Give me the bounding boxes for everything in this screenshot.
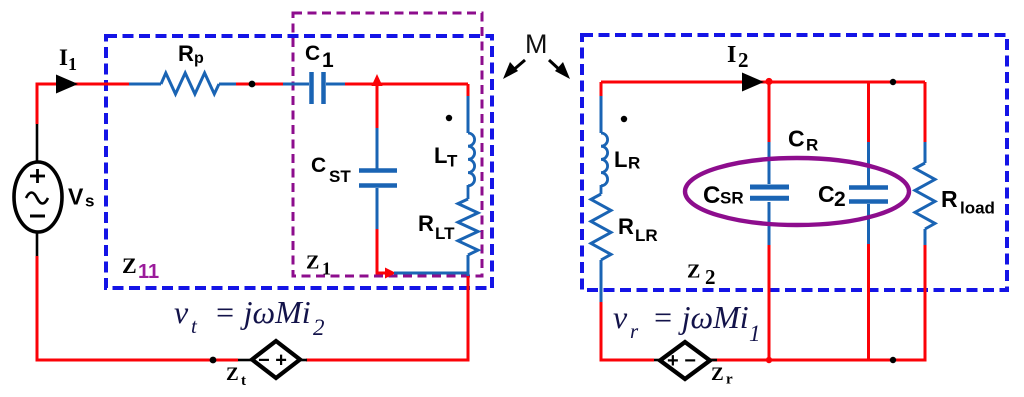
svg-text:C: C (703, 182, 720, 209)
wire C2 branch red bottom (867, 244, 870, 360)
wire between LR and RLR (600, 185, 603, 194)
junction dot red at I2 node (765, 78, 772, 85)
current arrow I2 (742, 73, 764, 92)
wire LR branch blue top lead (600, 96, 603, 133)
label Rp (178, 41, 204, 67)
svg-text:2: 2 (705, 265, 716, 289)
current arrow I1 (56, 75, 78, 94)
box Z2 (blue dashed, receiver impedance) (582, 35, 1007, 290)
label CR (788, 126, 818, 155)
svg-text:Z: Z (306, 252, 319, 274)
svg-text:Z: Z (226, 364, 239, 385)
label I2 (727, 42, 749, 72)
wire CST branch vertical red bottom (377, 229, 387, 273)
svg-text:r: r (630, 319, 639, 343)
coupling dot left coil (446, 115, 452, 121)
wire CSR branch red top (768, 82, 771, 143)
svg-text:I: I (59, 45, 68, 70)
wire LR branch red top (600, 82, 603, 97)
wire CST branch vertical blue bottom lead (376, 188, 379, 229)
svg-text:Z: Z (687, 261, 700, 283)
wire right branch bottom blue lead (467, 255, 470, 276)
box Z11 (blue dashed, transmitter impedance) (106, 36, 492, 288)
svg-text:LR: LR (635, 226, 658, 245)
label C1 (305, 42, 334, 72)
svg-text:Z: Z (711, 364, 724, 385)
wire top rail left circuit (red) (37, 84, 468, 124)
svg-text:2: 2 (313, 315, 325, 340)
svg-text:v: v (174, 294, 189, 330)
svg-text:R: R (178, 41, 194, 66)
svg-text:= jωMi: = jωMi (644, 299, 749, 335)
label C2 (818, 181, 846, 211)
svg-text:= jωMi: = jωMi (206, 294, 311, 330)
svg-text:V: V (68, 184, 84, 210)
wire Rload branch red bottom to rail (710, 245, 925, 360)
wire CSR branch blue bottom lead (768, 202, 771, 246)
svg-text:2: 2 (834, 188, 846, 211)
capacitor C1 (283, 72, 345, 104)
wire between LT and RLT (467, 185, 470, 199)
label Zr (711, 364, 733, 388)
capacitor CST (359, 171, 397, 186)
svg-text:R: R (628, 154, 640, 173)
svg-text:2: 2 (738, 48, 749, 72)
label Vs (68, 184, 94, 211)
label Z11 (122, 253, 159, 283)
coupling dot right coil (621, 116, 627, 122)
svg-text:SR: SR (720, 189, 744, 208)
label RLR (618, 214, 658, 245)
wire Rload branch red top (924, 82, 927, 143)
wire bottom rail right of diamond (red) (306, 359, 470, 362)
svg-text:M: M (525, 29, 548, 59)
svg-text:v: v (613, 299, 628, 335)
wire LR branch red bottom to rail (601, 302, 654, 360)
svg-text:LT: LT (435, 224, 455, 243)
svg-text:T: T (447, 152, 458, 171)
purple ellipse around CSR and C2 (685, 158, 909, 225)
dependent source Zt (diamond) (238, 341, 307, 378)
svg-text:C: C (788, 126, 805, 152)
junction dot after Rp (249, 81, 256, 88)
formula vr = jwMi1 (613, 299, 761, 346)
wire C2 branch red top (867, 82, 870, 143)
wire CST branch vertical red top (376, 84, 379, 128)
wire CSR branch blue top lead (768, 142, 771, 184)
wire Rload branch blue bottom lead (924, 229, 927, 246)
svg-text:1: 1 (322, 49, 334, 72)
resistor Rp (129, 73, 236, 94)
formula vt = jwMi2 (174, 294, 325, 340)
svg-text:1: 1 (749, 321, 761, 346)
inductor LT (468, 133, 475, 186)
svg-text:ST: ST (329, 167, 351, 186)
label Rload (941, 186, 995, 218)
mutual arrow right (549, 60, 570, 79)
voltage source Vs (14, 162, 62, 232)
svg-text:− +: − + (258, 350, 287, 372)
junction dot bottom-left rail (210, 357, 217, 364)
svg-text:Z: Z (122, 253, 137, 278)
junction dot rail right (890, 79, 896, 85)
resistor RLR (591, 194, 611, 260)
label LT (434, 143, 458, 171)
svg-text:R: R (618, 214, 634, 239)
wire CSR branch red bottom (768, 245, 771, 360)
label LR (614, 147, 640, 173)
box Z1 (purple dashed, series branch) (293, 13, 482, 276)
svg-text:C: C (311, 154, 326, 177)
svg-text:1: 1 (68, 54, 77, 74)
resistor RLT (458, 199, 478, 255)
svg-text:1: 1 (322, 259, 331, 279)
junction dot bottom rail right (890, 357, 896, 363)
svg-text:R: R (806, 136, 818, 155)
label RLT (418, 211, 455, 243)
junction dot red bottom CSR (766, 357, 772, 363)
capacitor CSR (750, 187, 789, 198)
wire C2 branch blue bottom lead (867, 204, 870, 245)
node arrow bottom of CST branch (red right arrow) (385, 268, 396, 279)
label Zt (226, 364, 246, 389)
svg-text:+ −: + − (667, 350, 696, 372)
svg-text:R: R (941, 186, 958, 212)
dependent source Zr (diamond) (654, 342, 717, 379)
svg-text:L: L (614, 147, 627, 172)
svg-text:11: 11 (138, 261, 159, 283)
wire right branch top blue lead (467, 96, 470, 133)
label Z1 (306, 252, 331, 279)
wire left vertical black segments to source (36, 124, 39, 257)
wire CST branch vertical blue top lead (376, 128, 379, 171)
svg-text:C: C (305, 42, 320, 65)
svg-text:R: R (418, 211, 434, 236)
wire bottom horizontal blue to right branch (394, 272, 468, 275)
svg-text:L: L (434, 143, 447, 168)
wire Rload branch blue top lead (924, 142, 927, 163)
wire right branch top red stub (467, 84, 470, 97)
svg-text:r: r (726, 372, 733, 388)
svg-text:I: I (727, 42, 736, 68)
svg-text:t: t (241, 373, 246, 389)
wire right branch red down to bottom rail (467, 276, 470, 360)
wire top rail right circuit (red) (601, 81, 925, 84)
capacitor C2 (849, 188, 888, 202)
svg-text:load: load (960, 199, 995, 218)
svg-text:p: p (194, 50, 204, 67)
wire C2 branch blue top lead (867, 142, 870, 186)
label Z2 (687, 261, 716, 290)
inductor LR (601, 133, 608, 186)
label I1 (59, 45, 77, 74)
svg-text:s: s (85, 192, 94, 211)
label CSR (703, 182, 744, 209)
node arrow at C1/CST junction (red up arrow) (372, 74, 383, 86)
wire LR branch blue bottom lead (600, 260, 603, 303)
svg-text:C: C (818, 181, 835, 207)
resistor Rload (915, 163, 935, 229)
wire left vertical bottom (red) and bottom rail to diamond (37, 256, 238, 360)
mutual arrow left (503, 60, 525, 79)
label CST (311, 154, 351, 186)
